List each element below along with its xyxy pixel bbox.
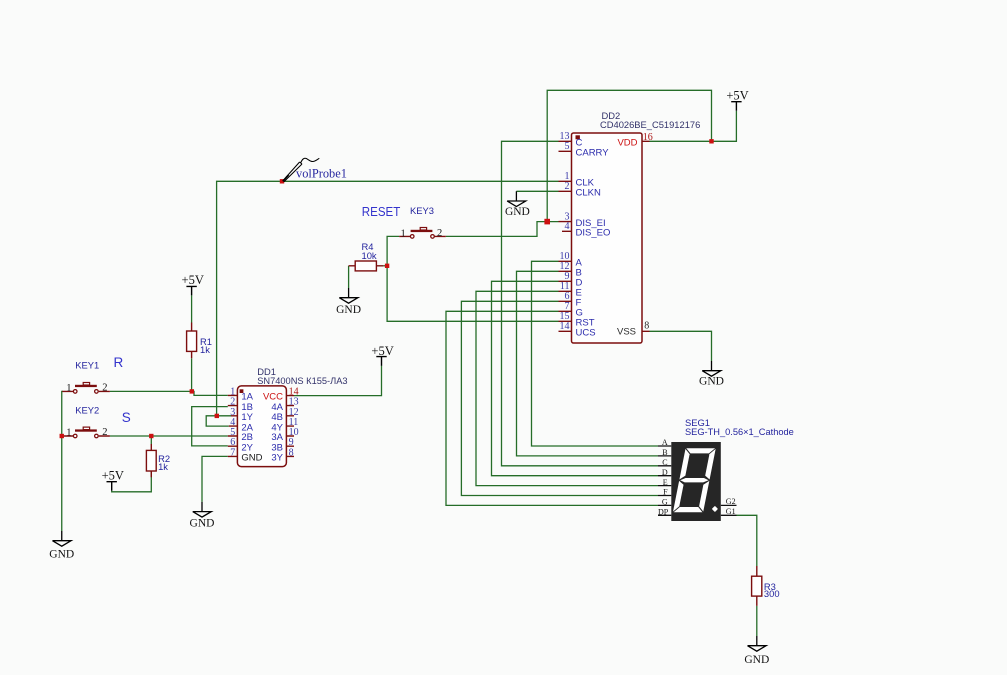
svg-text:300: 300 — [764, 588, 780, 599]
svg-text:DIS_EO: DIS_EO — [576, 228, 611, 239]
svg-text:1: 1 — [66, 428, 71, 439]
svg-text:+5V: +5V — [371, 344, 393, 358]
svg-text:GND: GND — [49, 549, 74, 561]
svg-text:C: C — [662, 458, 667, 467]
svg-text:G: G — [662, 498, 668, 507]
svg-text:D: D — [662, 468, 668, 477]
svg-text:R: R — [114, 355, 124, 370]
svg-text:1k: 1k — [200, 344, 210, 355]
svg-text:CD4026BE_C51912176: CD4026BE_C51912176 — [600, 119, 700, 130]
svg-text:2: 2 — [565, 181, 570, 192]
svg-text:SN7400NS К155-ЛА3: SN7400NS К155-ЛА3 — [257, 375, 347, 386]
svg-text:8: 8 — [289, 447, 294, 458]
svg-text:1: 1 — [66, 383, 71, 394]
svg-text:7: 7 — [230, 447, 235, 458]
svg-text:RESET: RESET — [362, 204, 401, 219]
svg-text:B: B — [662, 448, 667, 457]
svg-text:F: F — [663, 488, 668, 497]
svg-text:A: A — [662, 438, 668, 447]
svg-text:GND: GND — [336, 304, 361, 316]
svg-text:VDD: VDD — [617, 138, 637, 149]
svg-text:2: 2 — [437, 228, 442, 239]
svg-text:1: 1 — [401, 228, 406, 239]
svg-text:GND: GND — [699, 375, 724, 387]
svg-text:CLKN: CLKN — [576, 188, 601, 199]
svg-text:5: 5 — [565, 141, 570, 152]
svg-text:GND: GND — [241, 453, 262, 464]
svg-text:G2: G2 — [726, 497, 736, 506]
svg-text:CARRY: CARRY — [576, 148, 610, 159]
svg-text:14: 14 — [560, 321, 570, 332]
svg-text:volProbe1: volProbe1 — [296, 167, 347, 181]
svg-text:DP: DP — [658, 508, 669, 517]
svg-text:KEY3: KEY3 — [410, 205, 434, 216]
svg-text:VSS: VSS — [617, 327, 636, 338]
svg-text:KEY2: KEY2 — [75, 404, 99, 415]
svg-text:S: S — [122, 410, 131, 425]
svg-text:16: 16 — [643, 132, 653, 143]
svg-text:GND: GND — [505, 206, 530, 218]
svg-text:GND: GND — [744, 654, 769, 666]
svg-text:+5V: +5V — [102, 469, 124, 483]
svg-text:GND: GND — [190, 518, 215, 530]
svg-text:1k: 1k — [158, 461, 168, 472]
svg-text:3Y: 3Y — [271, 453, 283, 464]
svg-text:UCS: UCS — [576, 328, 596, 339]
svg-text:4: 4 — [565, 221, 570, 232]
svg-text:8: 8 — [644, 321, 649, 332]
svg-text:VCC: VCC — [263, 391, 283, 402]
svg-text:SEG-TH_0.56×1_Cathode: SEG-TH_0.56×1_Cathode — [685, 426, 794, 437]
svg-text:KEY1: KEY1 — [75, 360, 99, 371]
svg-text:2: 2 — [102, 383, 107, 394]
svg-text:G1: G1 — [726, 507, 736, 516]
svg-text:E: E — [663, 478, 668, 487]
svg-text:+5V: +5V — [182, 273, 204, 287]
svg-text:+5V: +5V — [726, 89, 748, 103]
svg-text:10k: 10k — [362, 250, 377, 261]
svg-text:2: 2 — [102, 427, 107, 438]
